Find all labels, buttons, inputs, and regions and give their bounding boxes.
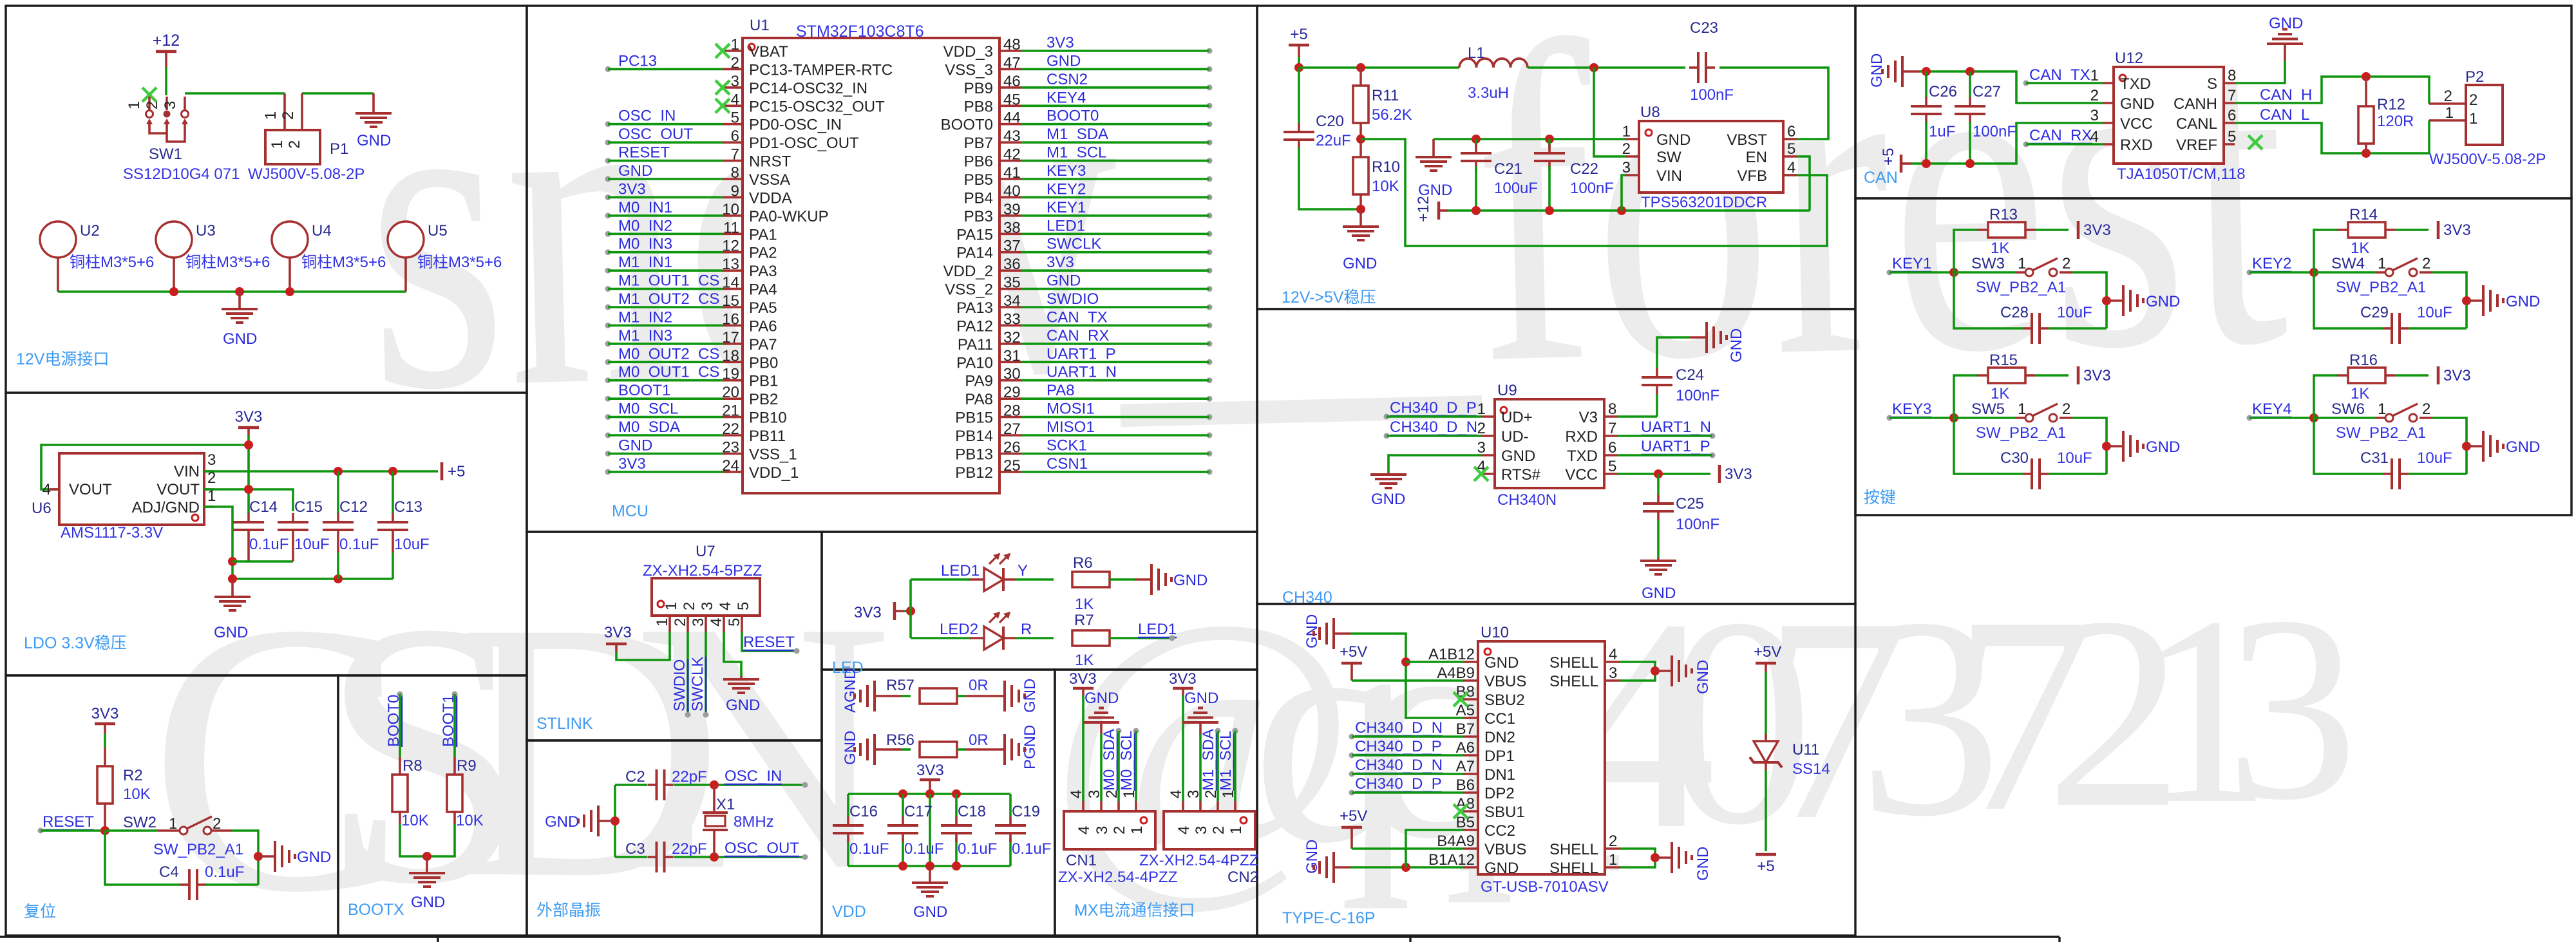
copper pillar U5 xyxy=(388,221,424,258)
svg-text:OSC_OUT: OSC_OUT xyxy=(724,840,799,857)
block frame keys xyxy=(1855,198,2571,515)
wire C27 bottom xyxy=(1969,122,1971,164)
junction xyxy=(1294,63,1303,72)
pin-1 marker U1 xyxy=(748,44,755,50)
pin R14 left stub xyxy=(2337,229,2348,231)
svg-text:KEY2: KEY2 xyxy=(2252,255,2291,272)
svg-text:6: 6 xyxy=(1608,439,1616,457)
node 3V3 U1-36 xyxy=(1046,254,1213,274)
junction xyxy=(235,287,244,296)
svg-text:U12: U12 xyxy=(2115,50,2143,67)
junction xyxy=(2309,413,2318,422)
svg-text:C28: C28 xyxy=(2000,304,2029,321)
wire U1-9 3V3 xyxy=(608,196,723,199)
ground GND C24 xyxy=(1690,322,1727,353)
svg-text:0.1uF: 0.1uF xyxy=(958,840,997,858)
junction xyxy=(2309,268,2318,277)
resistor R2 xyxy=(97,766,113,804)
svg-text:3V3: 3V3 xyxy=(854,604,882,621)
pin R13 right stub xyxy=(2025,229,2035,231)
wire U9-1 xyxy=(1387,415,1481,418)
svg-text:6: 6 xyxy=(2228,107,2236,124)
wire R13 to 3V3 xyxy=(2035,229,2069,231)
wire SW3 right xyxy=(2072,272,2107,328)
svg-text:CN2: CN2 xyxy=(1227,869,1258,886)
pin U1-17 stub xyxy=(723,343,743,345)
svg-text:B4A9: B4A9 xyxy=(1437,833,1475,850)
svg-text:PA12: PA12 xyxy=(956,317,993,335)
wire R7 to LED1 net xyxy=(1110,637,1172,639)
junction xyxy=(2462,442,2471,451)
svg-text:Y: Y xyxy=(1018,562,1028,579)
svg-text:2: 2 xyxy=(672,618,689,626)
wire R15 to 3V3 xyxy=(2035,374,2069,377)
junction xyxy=(2362,149,2371,158)
wire U1-18 M0_OUT2_CS xyxy=(608,361,723,363)
pin U1-5 stub xyxy=(723,123,743,126)
svg-text:3: 3 xyxy=(1185,790,1202,798)
junction xyxy=(1545,135,1554,144)
pin P1-2 stem xyxy=(301,93,303,130)
wire CN2-4 xyxy=(1182,695,1184,801)
svg-text:C19: C19 xyxy=(1012,803,1040,820)
svg-text:RXD: RXD xyxy=(2120,137,2153,154)
svg-text:10K: 10K xyxy=(1372,178,1399,195)
no-connect X RTS xyxy=(1474,467,1488,481)
junction xyxy=(100,826,109,835)
svg-text:BOOT0: BOOT0 xyxy=(1046,108,1099,125)
wire V3 to C24 xyxy=(1618,415,1657,418)
svg-text:SWDIO: SWDIO xyxy=(1046,290,1099,308)
pin U1-46 stub xyxy=(999,86,1021,89)
svg-text:BOOT1: BOOT1 xyxy=(618,382,670,399)
node RESET U1-7 xyxy=(605,144,670,164)
svg-text:1: 1 xyxy=(262,111,279,120)
copper pillar U4 xyxy=(272,221,308,258)
pin U12-3 stub xyxy=(2103,122,2114,124)
svg-text:C27: C27 xyxy=(1973,83,2001,100)
wire U1-28 MOSI1 xyxy=(1021,416,1209,419)
svg-text:22: 22 xyxy=(722,420,739,438)
svg-text:32: 32 xyxy=(1003,329,1021,346)
node GND U1-8 xyxy=(605,162,653,182)
svg-text:+5: +5 xyxy=(1290,26,1307,43)
svg-text:CN1: CN1 xyxy=(1066,852,1097,869)
svg-text:1: 1 xyxy=(1121,790,1138,798)
wire reset cap bus right xyxy=(206,883,258,886)
svg-text:C26: C26 xyxy=(1929,83,1957,100)
svg-text:CH340_D_P: CH340_D_P xyxy=(1390,399,1477,417)
node LED2 wire xyxy=(940,621,978,638)
svg-text:22pF: 22pF xyxy=(672,840,707,858)
wire CAN_L xyxy=(2235,120,2429,153)
svg-text:100nF: 100nF xyxy=(1570,180,1614,197)
pin U1-31 stub xyxy=(999,361,1021,363)
pin U9-8 stub xyxy=(1604,415,1618,418)
junction xyxy=(422,852,431,861)
svg-text:18: 18 xyxy=(722,347,739,364)
svg-text:PB11: PB11 xyxy=(749,428,786,445)
svg-text:11: 11 xyxy=(723,219,739,236)
svg-text:KEY2: KEY2 xyxy=(1046,180,1086,198)
block frame reset xyxy=(6,675,338,936)
power bar +5V U11 xyxy=(1756,662,1776,665)
stub R57 left xyxy=(891,695,902,697)
svg-text:C18: C18 xyxy=(958,803,986,820)
wire U1-33 CAN_TX xyxy=(1021,325,1209,327)
wire +5 rail left xyxy=(1299,66,1459,69)
svg-text:+5V: +5V xyxy=(1754,643,1781,661)
power bar 3V3 R13 xyxy=(2077,221,2080,239)
pin U1-21 stub xyxy=(723,416,743,419)
svg-text:UART1_N: UART1_N xyxy=(1641,419,1711,436)
svg-text:C12: C12 xyxy=(339,498,368,516)
pin U1-48 stub xyxy=(999,50,1021,52)
pin stem R8 bottom xyxy=(399,811,401,824)
wire KEY2 xyxy=(2249,271,2314,274)
svg-text:10K: 10K xyxy=(456,812,484,829)
svg-text:21: 21 xyxy=(722,402,739,420)
node KEY3 U1-41 xyxy=(1046,162,1213,182)
svg-text:GND: GND xyxy=(1728,328,1745,363)
svg-text:WJ500V-5.08-2P: WJ500V-5.08-2P xyxy=(2429,151,2546,168)
no-connect X U1-4 xyxy=(715,99,730,113)
node M0_SCL xyxy=(1118,728,1139,791)
svg-text:CSN2: CSN2 xyxy=(1046,71,1088,88)
svg-text:1: 1 xyxy=(269,140,286,149)
svg-text:2: 2 xyxy=(2062,400,2070,418)
pin U1-22 stub xyxy=(723,434,743,437)
svg-text:GT-USB-7010ASV: GT-USB-7010ASV xyxy=(1481,878,1609,896)
junction xyxy=(1356,63,1365,72)
svg-text:CANH: CANH xyxy=(2173,95,2217,113)
resistor R57 xyxy=(920,688,957,704)
pin U1-8 stub xyxy=(723,178,743,180)
pin U10-B7 stub xyxy=(1463,735,1478,738)
svg-text:3: 3 xyxy=(690,618,707,626)
svg-text:26: 26 xyxy=(1003,439,1021,457)
svg-text:SHELL: SHELL xyxy=(1549,673,1598,690)
svg-text:PA8: PA8 xyxy=(1046,382,1075,399)
wire U1-27 MISO1 xyxy=(1021,434,1209,437)
svg-text:1: 1 xyxy=(731,36,739,53)
IC U12 TJA1050 xyxy=(2114,67,2224,164)
pin U1-16 stub xyxy=(723,325,743,327)
wire C31 right xyxy=(2409,473,2467,475)
pin CN2-2 stem xyxy=(1217,801,1219,811)
block frame STLINK xyxy=(527,532,822,740)
svg-text:0.1uF: 0.1uF xyxy=(249,536,289,553)
capacitor C21 xyxy=(1461,144,1492,170)
svg-text:M0_SDA: M0_SDA xyxy=(1101,729,1118,791)
wire VOUT pin4 loop xyxy=(41,445,249,489)
wire U7-1 to 3V3 xyxy=(616,632,670,660)
svg-text:3V3: 3V3 xyxy=(618,455,646,473)
node M0_SDA U1-22 xyxy=(605,419,681,438)
svg-text:X1: X1 xyxy=(716,796,735,813)
wire LED2 to R7 xyxy=(1015,637,1054,639)
node M0_OUT1_CS U1-19 xyxy=(605,364,720,384)
pin U1-42 stub xyxy=(999,160,1021,162)
pin U12-8 stub xyxy=(2224,82,2235,84)
junction xyxy=(228,557,237,566)
svg-text:GND: GND xyxy=(1694,847,1712,881)
ground GND CN1 xyxy=(1083,708,1119,723)
switch SW5 xyxy=(2025,404,2058,422)
crystal X1 xyxy=(703,785,728,857)
junction xyxy=(1401,863,1410,872)
svg-text:3V3: 3V3 xyxy=(1046,254,1074,271)
svg-text:CH340: CH340 xyxy=(1282,589,1332,607)
node M1_IN1 U1-13 xyxy=(605,254,673,274)
svg-text:C30: C30 xyxy=(2000,449,2029,467)
node M0_SDA xyxy=(1101,728,1122,791)
svg-text:R12: R12 xyxy=(2377,96,2405,113)
svg-text:VDDA: VDDA xyxy=(749,189,792,207)
wire rail to C23 xyxy=(1528,66,1685,69)
pin CN2-1 stem xyxy=(1234,801,1236,811)
regulator U6 AMS1117-3.3 xyxy=(59,453,204,525)
pin stem R9 top xyxy=(453,757,456,776)
svg-text:STLINK: STLINK xyxy=(536,715,593,733)
pin U1-34 stub xyxy=(999,306,1021,308)
wire C20 top xyxy=(1298,68,1300,124)
svg-text:4: 4 xyxy=(1609,646,1617,663)
svg-text:2: 2 xyxy=(1103,790,1121,798)
svg-text:SS12D10G4 071: SS12D10G4 071 xyxy=(123,165,240,183)
power bar 3V3 U9 xyxy=(1718,465,1721,483)
svg-text:SW_PB2_A1: SW_PB2_A1 xyxy=(153,841,243,858)
node BOOT0 U1-44 xyxy=(1046,108,1213,127)
svg-text:TYPE-C-16P: TYPE-C-16P xyxy=(1282,909,1375,927)
svg-text:GND: GND xyxy=(842,731,859,765)
wire VCC to 3V3 xyxy=(1618,473,1710,475)
ground GND C25 xyxy=(1640,558,1676,574)
junction xyxy=(228,574,237,583)
svg-text:PD1-OSC_OUT: PD1-OSC_OUT xyxy=(749,135,859,152)
svg-text:R2: R2 xyxy=(123,767,143,784)
svg-text:1: 1 xyxy=(1609,851,1617,869)
node GND U1-23 xyxy=(605,437,653,457)
power bar 3V3 reset xyxy=(95,722,115,726)
svg-text:P1: P1 xyxy=(330,140,348,158)
svg-text:5: 5 xyxy=(1608,458,1616,475)
wire to C2 xyxy=(615,784,647,786)
svg-text:35: 35 xyxy=(1003,274,1021,292)
svg-text:2: 2 xyxy=(731,54,739,71)
node LED1 U1-38 xyxy=(1046,217,1213,237)
label GND shell bottom xyxy=(1694,847,1712,881)
svg-text:VSSA: VSSA xyxy=(749,171,790,189)
svg-text:PB12: PB12 xyxy=(955,464,993,482)
svg-text:C17: C17 xyxy=(904,803,933,820)
block frame crystal xyxy=(527,740,822,936)
connector P2 xyxy=(2466,85,2503,145)
svg-text:复位: 复位 xyxy=(24,903,56,921)
node GND U1-35 xyxy=(1046,272,1213,292)
svg-text:R57: R57 xyxy=(886,677,914,694)
svg-text:4: 4 xyxy=(1175,826,1193,834)
capacitor C23 xyxy=(1689,52,1715,83)
wire U1-31 UART1_P xyxy=(1021,361,1209,363)
svg-text:22uF: 22uF xyxy=(1316,132,1351,149)
pin U1-38 stub xyxy=(999,232,1021,235)
wire U9-7 xyxy=(1618,435,1712,437)
svg-text:12: 12 xyxy=(722,238,739,255)
pin CN1-2 stem xyxy=(1117,801,1120,811)
wire U1-23 GND xyxy=(608,453,723,455)
wire U1-19 M0_OUT1_CS xyxy=(608,379,723,382)
wire GND to pin A1B12 xyxy=(1406,661,1463,663)
wire CN1-2 xyxy=(1117,731,1120,801)
wire C25 top xyxy=(1657,474,1660,495)
svg-text:VCC: VCC xyxy=(2120,115,2153,133)
node M1_SDA xyxy=(1200,728,1221,791)
svg-text:0.1uF: 0.1uF xyxy=(904,840,943,858)
svg-text:CH340N: CH340N xyxy=(1497,491,1557,509)
pin U6-2 stub xyxy=(204,488,214,491)
junction xyxy=(388,467,397,476)
svg-text:6: 6 xyxy=(731,127,739,145)
node OSC_OUT xyxy=(724,840,808,860)
svg-text:VFB: VFB xyxy=(1737,167,1767,185)
junction xyxy=(1545,206,1554,215)
pin U1-37 stub xyxy=(999,251,1021,254)
wire C21 top xyxy=(1475,139,1477,148)
LED LED1 xyxy=(984,553,1010,591)
pin P1-1 stem xyxy=(283,93,286,130)
wire C24 bottom seg xyxy=(1656,394,1658,417)
svg-text:R16: R16 xyxy=(2349,352,2378,369)
wire U1-48 3V3 xyxy=(1021,50,1209,52)
copper pillar U3 xyxy=(156,221,192,258)
junction xyxy=(898,789,907,798)
svg-text:3V3: 3V3 xyxy=(2083,221,2111,239)
wire C17 bottom xyxy=(902,838,904,866)
svg-text:CH340_D_N: CH340_D_N xyxy=(1390,419,1477,436)
svg-text:4: 4 xyxy=(1068,790,1085,798)
wire U11 top xyxy=(1765,672,1767,739)
svg-text:M1_SDA: M1_SDA xyxy=(1200,729,1217,791)
svg-text:VIN: VIN xyxy=(174,463,200,480)
svg-text:MX电流通信接口: MX电流通信接口 xyxy=(1074,901,1195,919)
wire VDD top bus xyxy=(848,793,1010,795)
svg-text:U10: U10 xyxy=(1481,624,1509,641)
svg-text:GND: GND xyxy=(411,894,445,911)
svg-text:8: 8 xyxy=(1608,400,1616,418)
bottom partial frames xyxy=(0,937,2060,942)
svg-text:C4: C4 xyxy=(159,863,179,881)
pin stem R2 bottom xyxy=(104,804,106,831)
wire GND to pin B1A12 xyxy=(1350,866,1463,869)
svg-text:VCC: VCC xyxy=(1565,466,1598,484)
svg-text:1: 1 xyxy=(1227,826,1245,834)
resistor R15 xyxy=(1988,368,2025,383)
wire U1-22 M0_SDA xyxy=(608,434,723,437)
svg-text:GND: GND xyxy=(913,903,947,921)
power bar 3V3 CN1 xyxy=(1073,687,1094,690)
wire +5V to VBUS top xyxy=(1352,679,1463,682)
node SWCLK xyxy=(689,657,709,718)
svg-text:CSN1: CSN1 xyxy=(1046,455,1088,473)
svg-text:RESET: RESET xyxy=(618,144,670,162)
svg-text:GND: GND xyxy=(2146,438,2180,456)
node M1_IN3 U1-17 xyxy=(605,327,673,347)
svg-text:LED1: LED1 xyxy=(1046,217,1085,234)
svg-text:45: 45 xyxy=(1003,91,1021,108)
svg-text:TPS563201DDCR: TPS563201DDCR xyxy=(1641,194,1767,211)
svg-text:46: 46 xyxy=(1003,73,1021,90)
wire U1-34 SWDIO xyxy=(1021,306,1209,308)
node LED1 net xyxy=(1138,621,1177,641)
svg-text:3: 3 xyxy=(1477,439,1486,457)
node CH340_D_P U9 xyxy=(1384,399,1477,420)
svg-text:2: 2 xyxy=(681,602,698,610)
wire U9-2 xyxy=(1387,435,1481,437)
resistor R6 xyxy=(1072,572,1110,587)
wire to SW2 xyxy=(105,829,158,832)
svg-text:22pF: 22pF xyxy=(672,768,707,786)
wire to SW4 xyxy=(2314,271,2375,274)
ground stem CN1 xyxy=(1100,722,1103,734)
svg-text:VBUS: VBUS xyxy=(1484,841,1526,858)
svg-text:7: 7 xyxy=(1608,420,1616,437)
svg-text:PB5: PB5 xyxy=(964,171,993,189)
pin U9-5 stub xyxy=(1604,473,1618,475)
svg-text:41: 41 xyxy=(1003,164,1021,182)
pin U1-47 stub xyxy=(999,68,1021,71)
wire U1-16 M1_IN2 xyxy=(608,325,723,327)
wire R57 left xyxy=(902,695,911,697)
svg-text:U8: U8 xyxy=(1640,104,1660,121)
wire GND to CC2 xyxy=(1406,830,1463,867)
svg-text:SWCLK: SWCLK xyxy=(1046,236,1101,253)
svg-text:5: 5 xyxy=(726,618,743,626)
wire U1-42 M1_SCL xyxy=(1021,160,1209,162)
svg-text:10uF: 10uF xyxy=(294,536,330,553)
node SCK1 U1-26 xyxy=(1046,437,1213,457)
svg-text:U3: U3 xyxy=(196,222,216,240)
svg-text:3: 3 xyxy=(1622,159,1631,176)
wire U11 bottom xyxy=(1765,770,1767,851)
svg-text:3V3: 3V3 xyxy=(1046,34,1074,52)
svg-text:3: 3 xyxy=(699,602,716,610)
wire C20 bottom to R10 xyxy=(1299,147,1361,209)
svg-text:M0_IN3: M0_IN3 xyxy=(618,236,672,253)
svg-text:100nF: 100nF xyxy=(1973,123,2016,140)
svg-text:R14: R14 xyxy=(2349,206,2378,223)
svg-text:SW5: SW5 xyxy=(1971,400,2005,418)
svg-text:RESET: RESET xyxy=(43,813,94,831)
svg-text:10uF: 10uF xyxy=(2417,304,2452,321)
svg-text:AMS1117-3.3V: AMS1117-3.3V xyxy=(61,524,163,542)
node OSC_IN xyxy=(724,768,808,788)
svg-text:1K: 1K xyxy=(1991,240,2009,257)
svg-text:UART1_P: UART1_P xyxy=(1641,438,1710,455)
svg-text:PA2: PA2 xyxy=(749,245,777,262)
svg-text:2: 2 xyxy=(1477,420,1486,437)
svg-text:PB10: PB10 xyxy=(749,410,787,427)
svg-text:VOUT: VOUT xyxy=(156,481,200,498)
pin U8-6 stub xyxy=(1783,138,1797,140)
svg-text:PB4: PB4 xyxy=(964,189,993,207)
pin R15 left stub xyxy=(1977,374,1988,377)
svg-text:CAN_H: CAN_H xyxy=(2260,86,2312,104)
svg-text:PA10: PA10 xyxy=(956,354,993,372)
svg-text:C13: C13 xyxy=(394,498,422,516)
pin U10 SHELL 1 stub xyxy=(1605,866,1620,869)
pin U1-40 stub xyxy=(999,196,1021,199)
